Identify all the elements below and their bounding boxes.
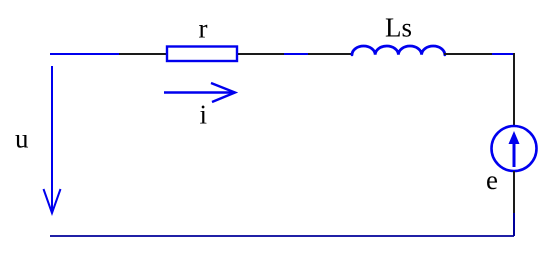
svg-text:e: e	[486, 165, 498, 195]
svg-text:Ls: Ls	[385, 13, 412, 43]
svg-text:i: i	[200, 100, 208, 130]
wire top black segment to resistor	[119, 53, 166, 55]
svg-text:r: r	[199, 14, 208, 44]
wire black segment inductor to corner	[444, 53, 493, 55]
wire right vertical black upper	[513, 53, 515, 127]
source e circle	[492, 126, 537, 171]
wire top-left blue segment	[50, 53, 120, 55]
inductor Ls	[352, 46, 445, 55]
wire bottom navy	[50, 235, 514, 237]
source e internal arrow	[509, 131, 520, 167]
wire right vertical blue bottom	[513, 213, 515, 236]
voltage arrow u	[44, 66, 61, 213]
wire blue corner segment	[492, 53, 515, 55]
wire black segment to inductor	[308, 53, 352, 55]
resistor r	[167, 47, 237, 62]
current arrow i	[164, 83, 235, 102]
wire right vertical black lower	[513, 171, 515, 214]
wire black segment resistor to mid	[238, 53, 285, 55]
svg-text:u: u	[15, 124, 29, 154]
wire mid blue patch	[284, 53, 308, 55]
